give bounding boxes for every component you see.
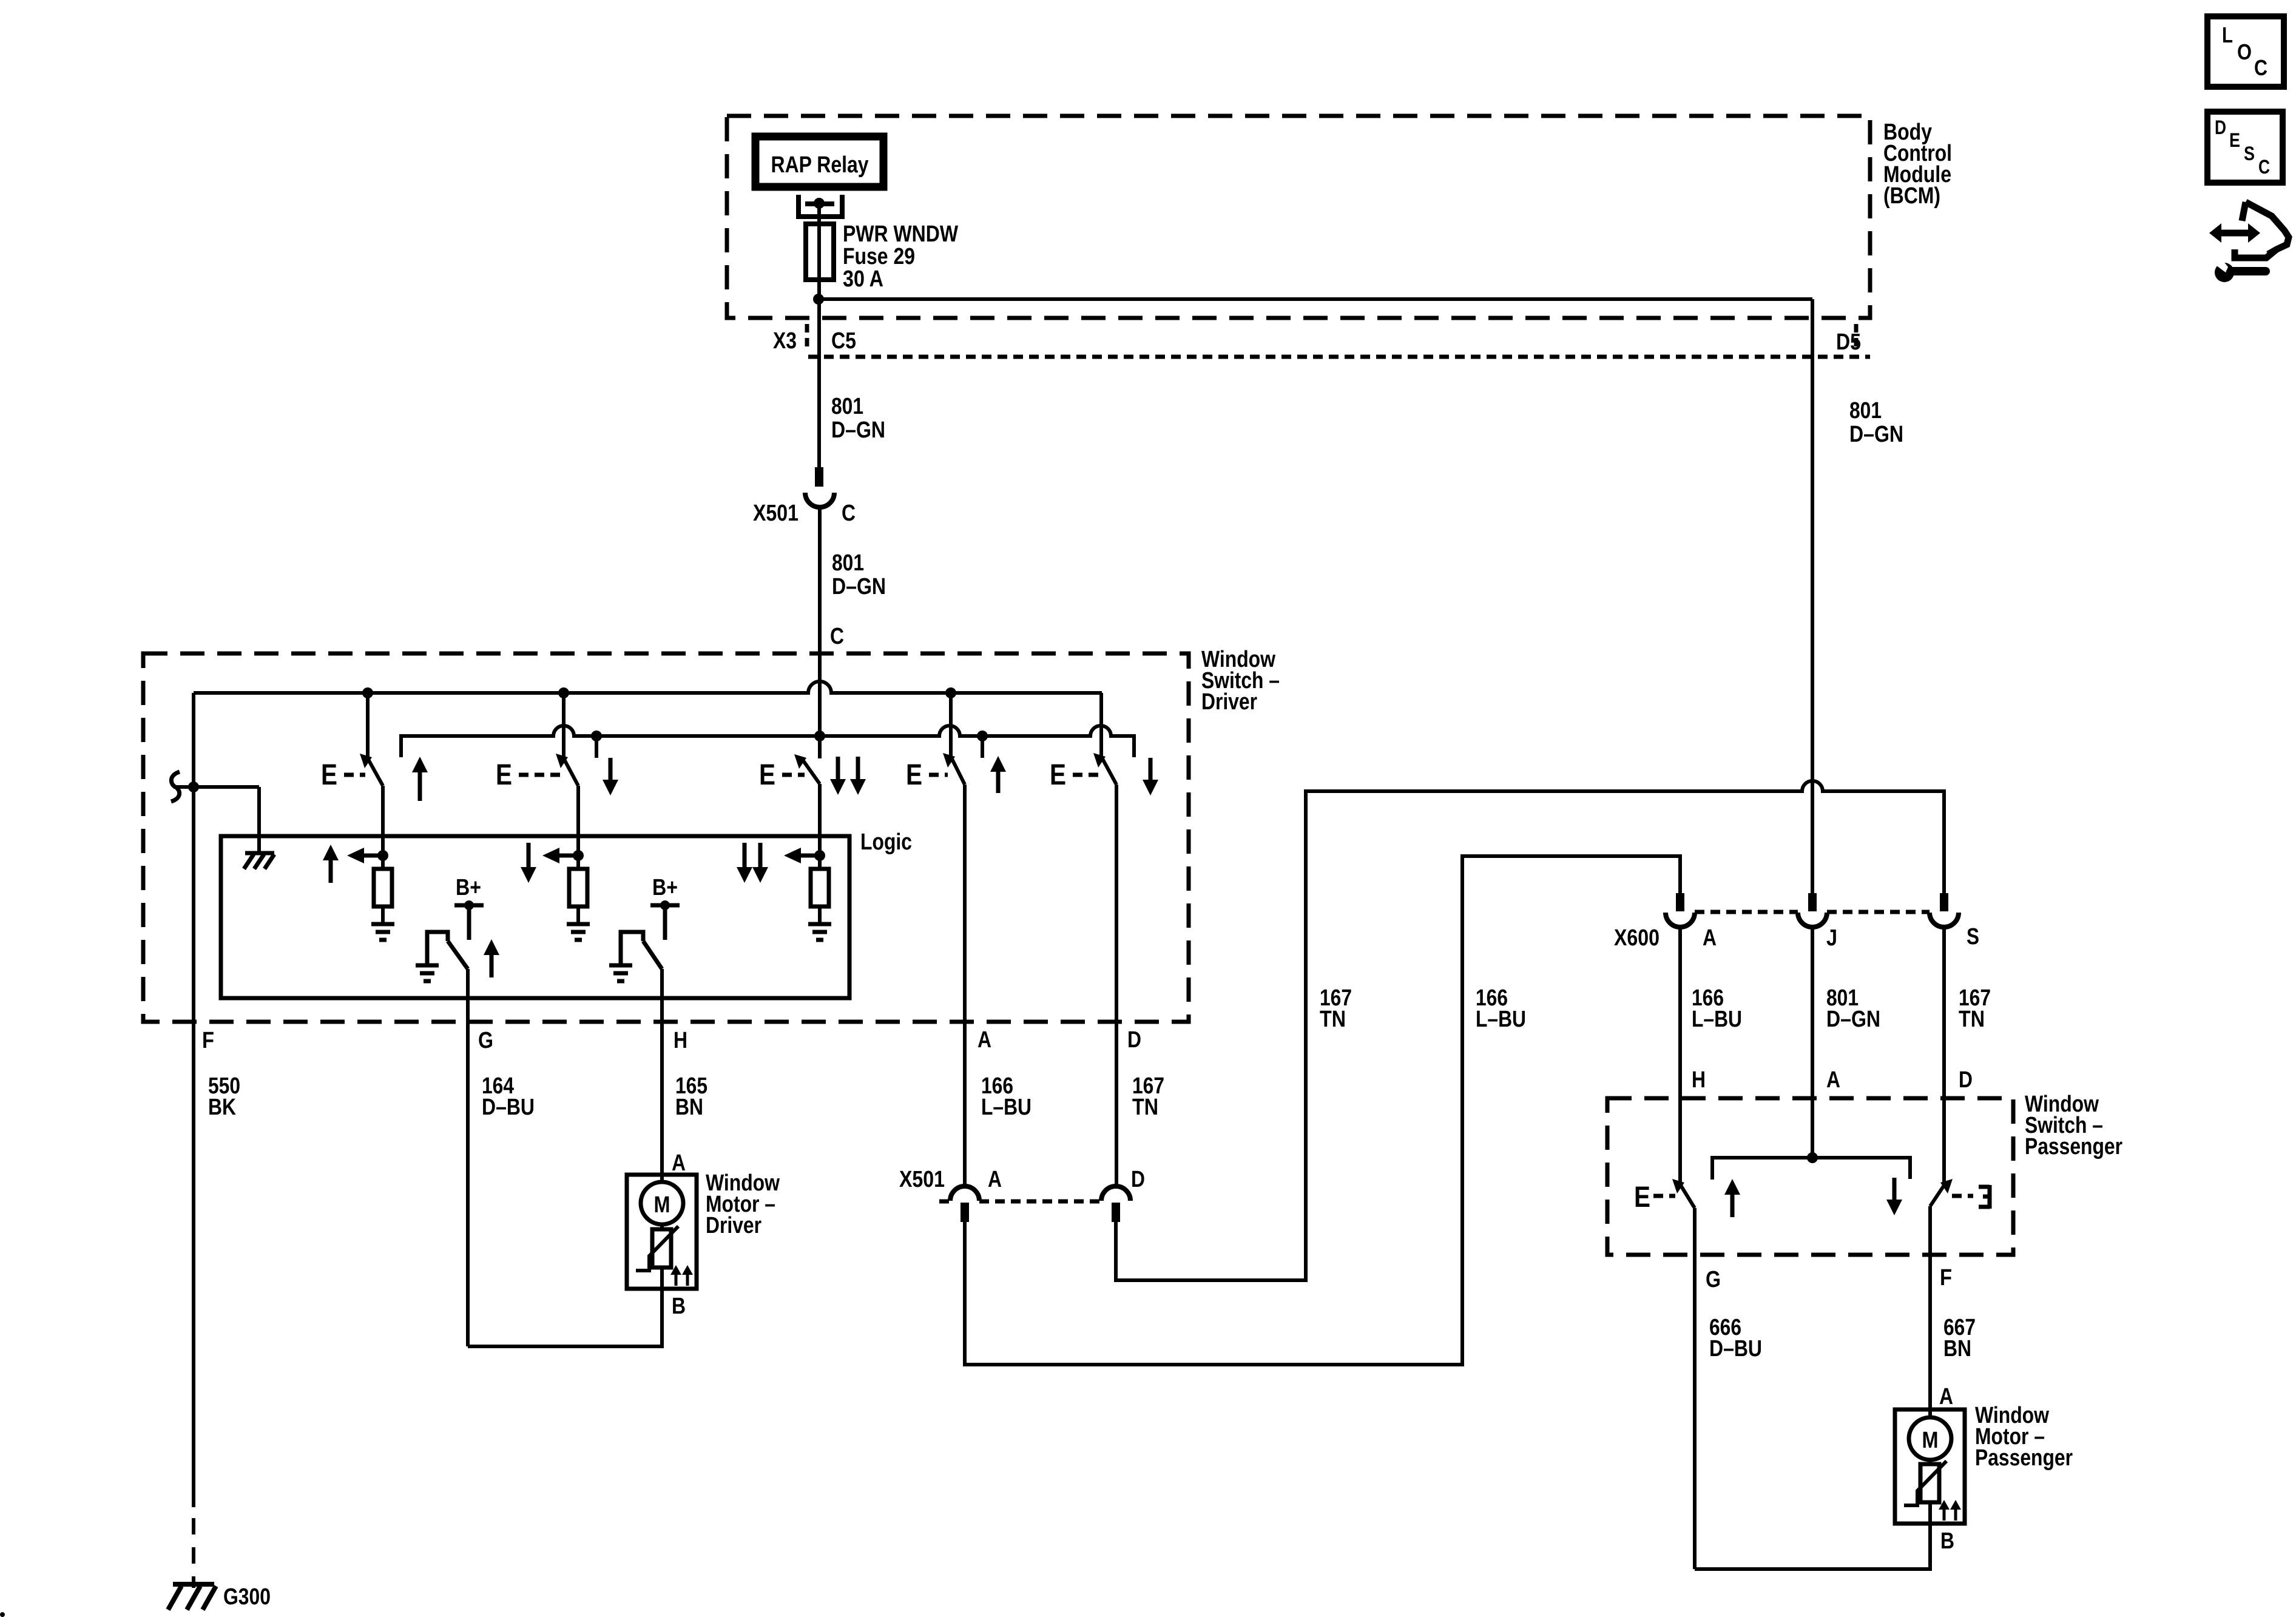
switch SW1 (driver up) — [360, 754, 372, 768]
svg-text:M: M — [1922, 1428, 1939, 1453]
connector X600 pin J male pin — [1808, 893, 1817, 911]
svg-text:Passenger: Passenger — [1975, 1445, 2073, 1471]
svg-text:L–BU: L–BU — [1476, 1007, 1526, 1032]
node ground tap on F wire — [188, 781, 199, 792]
Body Control Module dashed box — [727, 116, 1870, 318]
wire motor B loop (passenger) — [1695, 1524, 1930, 1569]
svg-text:S: S — [2244, 143, 2255, 164]
wire F 550 BK — [192, 693, 195, 1507]
svg-text:G: G — [478, 1028, 493, 1053]
svg-text:Passenger: Passenger — [2025, 1134, 2122, 1160]
svg-text:D: D — [1131, 1167, 1145, 1192]
wire — [381, 856, 385, 869]
junction arrow into logic net R-down — [542, 848, 559, 863]
relay contact dot — [814, 198, 825, 209]
relay switch H (motor down drive) — [621, 932, 643, 964]
node bus1-switch4 — [945, 687, 956, 698]
svg-text:D5: D5 — [1836, 329, 1861, 355]
svg-text:G: G — [1706, 1267, 1721, 1292]
node fuse output junction — [813, 294, 824, 305]
wire motor internals — [1928, 1460, 1932, 1464]
node dot R-down — [573, 850, 584, 861]
svg-text:H: H — [674, 1028, 687, 1053]
connector X600 dashed line — [1695, 910, 1798, 914]
wire — [818, 856, 822, 869]
window motor passenger box — [1895, 1409, 1965, 1524]
arrows double down (express) — [836, 757, 840, 780]
arrow down (window down) — [609, 758, 613, 781]
connector X501 pin C male pin — [815, 467, 823, 487]
svg-text:BN: BN — [675, 1095, 703, 1120]
svg-text:E: E — [321, 759, 337, 791]
wire G 666 D-BU — [1693, 1208, 1697, 1569]
wire SW2 output — [576, 786, 580, 856]
wire ground tap — [174, 785, 259, 789]
svg-text:B: B — [1940, 1528, 1954, 1554]
thermistor (driver motor) — [652, 1229, 671, 1268]
LOC icon box — [2207, 16, 2284, 87]
svg-text:801: 801 — [831, 394, 863, 419]
window motor driver box — [627, 1175, 697, 1289]
wire 801 D-GN into driver switch — [818, 507, 822, 758]
svg-text:L: L — [2222, 22, 2233, 47]
connector X501 pin A male pin — [961, 1203, 969, 1222]
arrow down — [1149, 758, 1153, 781]
svg-text:F: F — [1940, 1265, 1952, 1291]
resistor R-up — [374, 869, 392, 906]
ground (logic switch H) — [609, 964, 632, 968]
service icon: double arrow — [2220, 230, 2249, 237]
svg-text:TN: TN — [1959, 1007, 1985, 1032]
wire SW3 output — [818, 784, 822, 856]
wire motor bottom — [1928, 1502, 1932, 1524]
connector X501 pin C socket — [805, 493, 834, 507]
node dot R-express — [814, 850, 825, 861]
svg-text:D: D — [2215, 116, 2226, 138]
arrows double down (logic, express sense) — [743, 843, 747, 868]
svg-text:BK: BK — [208, 1095, 236, 1120]
connector divider X3 — [805, 324, 809, 352]
wire motor B loop — [468, 1289, 662, 1346]
node bus1-switch2 — [558, 687, 569, 698]
wire B+ stem — [663, 905, 667, 940]
twisted lead curl symbol — [171, 772, 180, 802]
svg-text:S: S — [1967, 924, 1979, 950]
node bus1-switch1 — [362, 687, 373, 698]
switch passenger down — [1940, 1179, 1953, 1193]
connector X501 pin D socket — [1101, 1186, 1130, 1201]
svg-text:E: E — [496, 759, 512, 791]
svg-text:D–GN: D–GN — [1826, 1007, 1880, 1032]
svg-text:C: C — [830, 624, 844, 649]
connector divider D5 — [1854, 324, 1859, 352]
arrow down (passenger down) — [1893, 1178, 1897, 1201]
svg-text:D: D — [1959, 1067, 1973, 1093]
B+ terminal bar — [650, 903, 680, 908]
switch passenger up — [1672, 1179, 1684, 1193]
connector X600 pin A male pin — [1676, 893, 1684, 911]
wire SW4 output (A) — [963, 785, 967, 1187]
wire 167 TN routing to X600 S with hop — [1116, 781, 1944, 1280]
arrow down (logic, down sense) — [527, 843, 531, 868]
svg-text:J: J — [1826, 925, 1837, 951]
arrows double up (motor passenger) — [1939, 1500, 1950, 1510]
relay contact bar — [805, 201, 834, 206]
svg-text:801: 801 — [1849, 398, 1882, 424]
stray mark bottom-left — [0, 1612, 5, 1617]
relay contact bracket — [799, 195, 842, 217]
svg-text:Fuse 29: Fuse 29 — [843, 244, 915, 269]
arrow up (logic, up sense) — [323, 845, 339, 860]
svg-text:D–GN: D–GN — [831, 417, 885, 443]
wire motor internals — [660, 1224, 664, 1229]
Window Switch Driver dashed box — [143, 653, 1189, 1022]
svg-text:E: E — [1050, 759, 1066, 791]
motor M circle (driver) — [641, 1182, 683, 1224]
switch SW4 (passenger up from driver) — [943, 753, 955, 768]
wire bus1 to switch1 pivot — [366, 693, 370, 757]
node dot R-up — [377, 850, 388, 861]
connector X501 dashed line — [979, 1200, 1101, 1204]
ground (signal) R-express — [808, 922, 831, 927]
svg-text:(BCM): (BCM) — [1883, 183, 1940, 209]
switch SW5 (passenger down from driver) — [1093, 753, 1106, 768]
service icon: part outline — [2242, 202, 2246, 221]
svg-text:RAP Relay: RAP Relay — [771, 152, 869, 178]
svg-text:TN: TN — [1320, 1007, 1346, 1032]
DESC icon box — [2207, 112, 2283, 183]
svg-text:D: D — [1127, 1027, 1141, 1053]
wire passenger feed bar — [1712, 1158, 1910, 1180]
svg-text:M: M — [654, 1192, 670, 1218]
wire — [576, 856, 580, 869]
wire fuse junction to right branch — [819, 297, 1812, 301]
svg-text:A: A — [1939, 1384, 1953, 1409]
arrow up (G drive) — [484, 939, 499, 955]
svg-text:C: C — [842, 501, 856, 526]
relay switch G (motor up drive) — [427, 932, 448, 964]
connector X501 pin D male pin — [1112, 1203, 1120, 1222]
connector X600 pin J socket — [1798, 913, 1827, 927]
svg-text:A: A — [1826, 1067, 1840, 1093]
wire G 164 D-BU — [466, 969, 470, 1346]
wire 801 D-GN right drop to X600 J — [1811, 299, 1814, 893]
ground G300 — [173, 1582, 214, 1587]
svg-text:E: E — [759, 759, 775, 791]
wire bus1 to switch4 pivot — [949, 693, 953, 757]
svg-text:C5: C5 — [831, 328, 856, 354]
wire bus2 with hops — [401, 726, 1134, 757]
svg-text:X600: X600 — [1614, 925, 1660, 951]
wire motor bottom — [660, 1268, 664, 1289]
svg-text:PWR WNDW: PWR WNDW — [843, 221, 958, 247]
junction arrow into logic net R-up — [347, 848, 364, 863]
svg-text:D–GN: D–GN — [1849, 422, 1903, 447]
wire X600 S to passenger switch D — [1942, 927, 1946, 1183]
wire X600 A to passenger switch H — [1678, 927, 1682, 1183]
wire relay to fuse — [817, 203, 821, 299]
fuse F29 — [806, 224, 834, 280]
node bus2 stub1 — [591, 731, 602, 741]
node passenger feed junction — [1807, 1152, 1818, 1163]
svg-text:B: B — [672, 1294, 686, 1319]
wire bus1 (feed bus) with hop over 801 wire — [194, 681, 1102, 693]
svg-text:TN: TN — [1132, 1095, 1158, 1120]
svg-text:H: H — [1692, 1067, 1706, 1093]
RAP Relay box — [755, 137, 883, 187]
connector X501 pin A socket — [950, 1186, 979, 1201]
wire H 165 BN — [660, 969, 664, 1183]
svg-text:BN: BN — [1943, 1336, 1971, 1362]
svg-text:D–BU: D–BU — [1709, 1336, 1762, 1362]
svg-text:A: A — [1703, 925, 1717, 951]
svg-text:C: C — [2258, 156, 2270, 178]
arrow up (passenger up) — [1724, 1179, 1740, 1195]
service icon: wrench — [2215, 263, 2234, 282]
BCM connector dotted line — [808, 355, 1870, 359]
wire stub — [595, 736, 598, 758]
wire SW5 output (D) — [1115, 785, 1118, 1187]
B+ terminal bar — [454, 903, 484, 908]
svg-text:F: F — [202, 1028, 214, 1053]
svg-text:A: A — [988, 1167, 1002, 1192]
node bus2 801 junction — [814, 731, 825, 741]
wire stub — [981, 736, 984, 758]
svg-text:B+: B+ — [456, 875, 481, 900]
ground (logic switch G) — [416, 964, 439, 968]
svg-text:G300: G300 — [223, 1584, 271, 1610]
svg-text:L–BU: L–BU — [981, 1095, 1032, 1120]
ground (signal) R-up — [371, 922, 394, 927]
svg-text:Driver: Driver — [706, 1213, 761, 1238]
contact E mirrored (passenger down) — [1979, 1185, 1990, 1209]
svg-text:B+: B+ — [652, 875, 678, 900]
svg-text:X501: X501 — [899, 1167, 945, 1192]
Logic box — [221, 836, 849, 998]
svg-text:E: E — [906, 759, 922, 791]
wire bus1 to switch2 pivot — [562, 693, 566, 757]
wire bus1 right corner to switch5 pivot — [1099, 693, 1103, 757]
resistor R-express — [811, 869, 829, 906]
svg-text:X3: X3 — [773, 328, 797, 354]
svg-text:D–GN: D–GN — [832, 574, 886, 599]
wire F 667 BN — [1928, 1206, 1932, 1417]
switch SW3 (express down) — [794, 754, 806, 769]
connector X600 pin S socket — [1930, 913, 1959, 927]
resistor R-down — [569, 869, 587, 906]
node bus2 stub2 — [977, 731, 988, 741]
svg-text:A: A — [672, 1150, 686, 1176]
wire SW1 output — [381, 786, 385, 856]
svg-text:30 A: 30 A — [843, 266, 883, 292]
wire — [381, 906, 385, 924]
svg-text:D–BU: D–BU — [482, 1095, 535, 1120]
svg-text:Logic: Logic — [860, 829, 912, 855]
wire 801 D-GN from fuse to X501 C — [817, 299, 821, 467]
junction arrow into logic net R-express — [784, 848, 801, 863]
arrow up — [990, 756, 1006, 772]
ground (signal) R-down — [567, 922, 590, 927]
svg-text:A: A — [977, 1027, 991, 1053]
svg-text:L–BU: L–BU — [1692, 1007, 1742, 1032]
svg-text:X501: X501 — [753, 501, 799, 526]
wire X600 J to passenger switch A — [1811, 927, 1814, 1158]
wire 166 L-BU routing to X600 A — [965, 856, 1680, 1365]
motor M circle (passenger) — [1909, 1417, 1951, 1460]
wire — [818, 906, 822, 924]
svg-text:801: 801 — [832, 550, 864, 576]
wire F dashed tail — [192, 1518, 195, 1588]
connector X600 pin S male pin — [1940, 893, 1948, 911]
arrow up (window up) — [412, 757, 428, 772]
svg-text:E: E — [1634, 1181, 1650, 1214]
switch SW2 (driver down) — [556, 754, 568, 768]
connector X600 pin A socket — [1666, 913, 1695, 927]
arrows double up (motor driver) — [670, 1265, 681, 1275]
svg-text:E: E — [2229, 129, 2240, 151]
wire B+ stem — [467, 905, 471, 940]
svg-text:O: O — [2237, 39, 2252, 64]
Window Switch Passenger dashed box — [1607, 1098, 2013, 1255]
thermistor (passenger motor) — [1920, 1464, 1939, 1502]
wire — [576, 906, 580, 924]
svg-text:C: C — [2254, 55, 2267, 80]
svg-text:Driver: Driver — [1201, 689, 1257, 715]
ground (chassis) in logic box — [245, 851, 274, 856]
